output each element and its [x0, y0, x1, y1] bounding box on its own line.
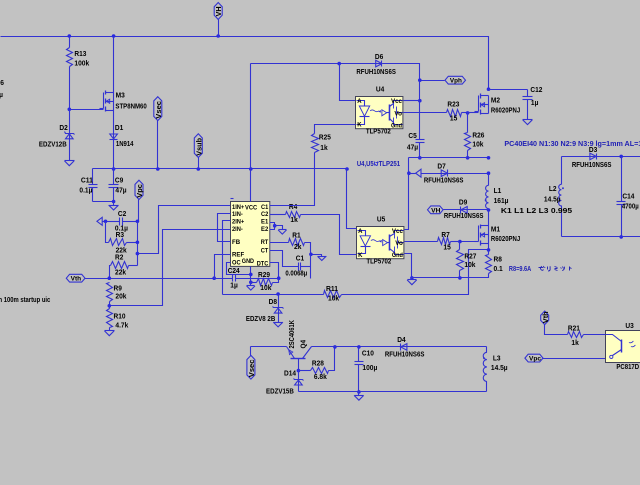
resistor R11 — [279, 250, 489, 303]
svg-text:E1: E1 — [261, 218, 269, 225]
port flag (C2 input) — [97, 217, 106, 225]
wire: U1 GND pin — [249, 267, 253, 285]
svg-text:RFUH10NS6S: RFUH10NS6S — [572, 160, 612, 169]
wire: R9/R10 tap to 2IN- — [108, 230, 231, 308]
svg-text:U4: U4 — [376, 85, 385, 94]
resistor R3 — [106, 222, 138, 255]
svg-text:M2: M2 — [491, 96, 500, 105]
svg-text:15: 15 — [443, 242, 450, 251]
svg-text:K: K — [357, 121, 361, 128]
wire: M1 source node — [487, 244, 491, 252]
diode D4 — [385, 335, 425, 358]
resistor R21 — [568, 324, 606, 347]
wire: current-sense run — [223, 292, 280, 296]
svg-text:C10: C10 — [362, 348, 374, 357]
svg-text:4700µ: 4700µ — [622, 201, 639, 210]
wire: E1/E2 tie — [270, 223, 283, 230]
diode D7 — [424, 161, 490, 184]
wire: 2IN+ to current-sense net — [223, 221, 231, 295]
wire: DTC leg — [270, 263, 279, 279]
svg-text:C24: C24 — [228, 266, 241, 275]
net flag Vpc (left) — [135, 180, 144, 221]
svg-text:RFUH10NS6S: RFUH10NS6S — [444, 211, 484, 220]
resistor R2 — [110, 253, 138, 279]
svg-text:R6020PNJ: R6020PNJ — [491, 234, 520, 243]
capacitor C5 — [407, 101, 425, 160]
svg-text:L2: L2 — [549, 184, 557, 193]
wire: Vph to U4 Vcc — [404, 81, 422, 103]
svg-text:D4: D4 — [397, 335, 406, 344]
svg-text:CT: CT — [261, 247, 269, 254]
node: M1 drain — [487, 208, 491, 212]
op-amp U4 (TLP5702 opto driver) — [356, 85, 403, 136]
svg-text:R25: R25 — [319, 132, 331, 141]
wire: Q4 collector run — [312, 345, 487, 349]
svg-text:Vpc: Vpc — [529, 356, 541, 363]
wire: U5 Vcc leg — [405, 158, 411, 230]
svg-text:D9: D9 — [459, 197, 467, 206]
svg-text:10k: 10k — [260, 283, 272, 292]
svg-text:D8: D8 — [269, 297, 277, 306]
svg-text:1IN+: 1IN+ — [232, 204, 244, 211]
wire: secondary return — [562, 236, 640, 238]
svg-text:1k: 1k — [290, 215, 298, 224]
text: comment R8 limit — [509, 266, 572, 273]
svg-text:0µ: 0µ — [0, 90, 3, 99]
svg-text:C1: C1 — [296, 253, 304, 262]
resistor R4 — [270, 202, 357, 254]
resistor R26 — [465, 113, 485, 160]
svg-text:EDZV15B: EDZV15B — [266, 386, 294, 395]
wire: Vth node — [85, 276, 217, 280]
net flag Vth (left) — [66, 274, 85, 282]
zener D8 — [246, 295, 284, 324]
svg-text:Vsec: Vsec — [154, 101, 163, 119]
ground (C12) — [523, 120, 533, 125]
svg-text:FB: FB — [232, 239, 240, 246]
capacitor C12 — [489, 85, 543, 120]
ground (E1/E2) — [278, 230, 286, 235]
ground (C10) — [354, 392, 364, 401]
text: transformer comment — [504, 141, 640, 148]
svg-text:10k: 10k — [472, 139, 484, 148]
text: coupling K1 — [501, 206, 572, 215]
svg-text:R23: R23 — [447, 100, 459, 109]
svg-text:D14: D14 — [284, 369, 297, 378]
svg-text:0.1µ: 0.1µ — [79, 185, 92, 194]
svg-text:2SC4061K: 2SC4061K — [287, 319, 296, 348]
zener D2 — [39, 110, 75, 161]
svg-text:VH: VH — [431, 207, 440, 214]
zener D14 — [266, 369, 304, 396]
svg-text:EDZV12B: EDZV12B — [39, 140, 67, 149]
wire: VCC-D6 top loop — [251, 62, 376, 66]
wire: RT/CT ground spur — [309, 253, 321, 257]
svg-text:K: K — [358, 252, 362, 259]
resistor R29 — [251, 270, 279, 292]
wire: bottom return — [299, 391, 487, 393]
svg-text:Q4: Q4 — [299, 340, 308, 349]
svg-text:R8: R8 — [494, 255, 502, 264]
svg-text:D3: D3 — [589, 145, 597, 154]
svg-text:R8=9.6A: R8=9.6A — [509, 266, 531, 273]
transistor M1 — [475, 211, 521, 246]
svg-text:K1 L1 L2 L3 0.995: K1 L1 L2 L3 0.995 — [501, 206, 572, 215]
resistor R1 — [270, 230, 311, 254]
svg-text:2k: 2k — [294, 242, 302, 251]
svg-text:Vsub: Vsub — [195, 137, 204, 155]
svg-text:A: A — [358, 228, 362, 235]
svg-text:Vcc: Vcc — [391, 98, 402, 105]
capacitor C2 — [104, 209, 140, 232]
net flag Vsec (upper) — [154, 97, 163, 169]
svg-text:161µ: 161µ — [494, 196, 509, 205]
svg-text:Vcc: Vcc — [392, 228, 403, 235]
inductor L1 — [485, 174, 509, 211]
svg-text:RFUH10NS6S: RFUH10NS6S — [385, 349, 425, 358]
svg-text:D2: D2 — [59, 123, 67, 132]
capacitor C24 — [215, 266, 281, 289]
svg-text:0.0068µ: 0.0068µ — [285, 268, 307, 277]
ground (U1 GND) — [247, 283, 256, 291]
svg-text:U3: U3 — [625, 321, 633, 330]
svg-text:R1: R1 — [292, 230, 300, 239]
svg-text:A: A — [357, 98, 361, 105]
transistor M3 — [100, 37, 147, 112]
text: off-canvas C16 fragment — [0, 78, 4, 99]
wire: U5 A leg — [347, 169, 357, 229]
svg-text:R7: R7 — [441, 230, 449, 239]
svg-text:R13: R13 — [74, 49, 86, 58]
svg-text:Vpc: Vpc — [135, 184, 144, 198]
svg-text:1N914: 1N914 — [116, 139, 134, 148]
svg-text:L3: L3 — [493, 353, 501, 362]
wire: REF leg — [215, 255, 231, 279]
svg-text:R21: R21 — [568, 324, 580, 333]
wire: U4 A leg — [340, 64, 356, 101]
capacitor C14 — [617, 157, 639, 239]
svg-text:C2: C2 — [261, 211, 269, 218]
resistor R23 — [404, 100, 470, 123]
svg-text:R10: R10 — [114, 311, 126, 320]
ground (C9/C11) — [109, 202, 119, 211]
svg-text:14.5µ: 14.5µ — [491, 363, 508, 372]
op-amp U3 (PC817 opto) — [606, 321, 640, 371]
wire: M3 gate node — [68, 108, 104, 112]
svg-text:STP8NM60: STP8NM60 — [115, 102, 146, 111]
resistor R10 — [107, 306, 130, 331]
wire: switch node row — [409, 156, 491, 160]
wire: OC to GND — [227, 263, 251, 275]
svg-text:Vo: Vo — [394, 110, 402, 117]
svg-text:R4: R4 — [289, 202, 298, 211]
diode D6 — [356, 52, 419, 81]
svg-text:E2: E2 — [261, 226, 269, 233]
text: .tran directive fragment — [0, 295, 50, 304]
svg-text:EDZV8 2B: EDZV8 2B — [246, 314, 276, 323]
svg-text:R29: R29 — [258, 270, 270, 279]
ground (U5 Gnd) — [407, 278, 417, 285]
svg-text:C11: C11 — [81, 176, 93, 185]
svg-text:Vph: Vph — [450, 78, 462, 85]
svg-text:Vo: Vo — [395, 240, 403, 247]
svg-text:C12: C12 — [530, 85, 542, 94]
svg-text:20k: 20k — [115, 292, 127, 301]
svg-text:4.7k: 4.7k — [115, 320, 129, 329]
svg-text:16: 16 — [0, 78, 4, 87]
ground (D8) — [273, 322, 283, 327]
svg-text:Vth: Vth — [71, 276, 82, 283]
svg-text:C14: C14 — [622, 192, 635, 201]
svg-text:PC817D: PC817D — [616, 362, 639, 371]
svg-text:14.5µ: 14.5µ — [544, 194, 561, 203]
svg-text:TLP5702: TLP5702 — [366, 257, 391, 266]
resistor R7 — [405, 230, 460, 251]
svg-text:2IN-: 2IN- — [232, 226, 243, 233]
wire: Vsec/Vsub supply rail — [93, 167, 349, 171]
svg-text:n 100m startup uic: n 100m startup uic — [0, 295, 50, 304]
svg-text:M1: M1 — [491, 225, 500, 234]
resistor R28 — [299, 345, 337, 381]
ground (D2) — [65, 161, 75, 166]
inductor L2 — [544, 157, 564, 237]
svg-text:C1: C1 — [261, 204, 269, 211]
wire: C9/C11 ground node — [93, 200, 116, 204]
svg-text:U4,U5: U4,U5 — [357, 159, 374, 168]
resistor R13 — [67, 37, 90, 110]
svg-text:RT: RT — [261, 239, 269, 246]
svg-text:VCC: VCC — [245, 205, 257, 212]
svg-text:0.1: 0.1 — [494, 264, 503, 273]
op-amp U5 (TLP5702 opto driver) — [357, 215, 404, 266]
wire: node B vertical — [136, 222, 140, 266]
svg-text:100µ: 100µ — [362, 363, 377, 372]
op-amp U1 (TL494 PWM controller) — [231, 199, 270, 268]
svg-text:R28: R28 — [312, 359, 324, 368]
svg-text:C2: C2 — [118, 209, 126, 218]
net flag VH (top) — [214, 3, 223, 37]
svg-text:RFUH10NS6S: RFUH10NS6S — [356, 67, 396, 76]
net flag Vph — [418, 76, 466, 84]
net flag Vsub — [194, 134, 203, 169]
capacitor C11 — [79, 169, 97, 202]
svg-text:U5: U5 — [377, 215, 385, 224]
wire: Vsec to Q4 emitter — [251, 346, 287, 348]
svg-text:C9: C9 — [115, 176, 123, 185]
capacitor C1 — [270, 251, 311, 279]
svg-text:10k: 10k — [328, 294, 340, 303]
capacitor C10 — [355, 347, 378, 394]
svg-text:D1: D1 — [115, 123, 123, 132]
svg-text:Vsec: Vsec — [247, 360, 256, 378]
svg-text:R2: R2 — [115, 253, 123, 262]
svg-text:GND: GND — [242, 258, 254, 265]
wire: node B to 1IN+ — [138, 206, 231, 254]
inductor L3 — [483, 347, 507, 392]
wire: VCC leg — [250, 64, 252, 202]
wire: U5 Gnd leg — [405, 254, 460, 280]
svg-text:RFUH10NS6S: RFUH10NS6S — [424, 176, 464, 185]
wire: top VH rail — [1, 34, 489, 89]
text: comment U4 U5 — [357, 159, 400, 168]
diode D3 — [562, 145, 640, 169]
svg-text:15: 15 — [450, 114, 457, 123]
svg-text:Gnd: Gnd — [391, 122, 402, 129]
ground (R10) — [105, 331, 115, 336]
port flag (D7) — [409, 169, 442, 177]
svg-text:1k: 1k — [571, 338, 579, 347]
svg-text:2IN+: 2IN+ — [232, 218, 244, 225]
wire: M1 gate — [458, 240, 478, 244]
svg-text:L1: L1 — [494, 186, 502, 195]
svg-text:47µ: 47µ — [115, 185, 126, 194]
svg-text:R6020PNJ: R6020PNJ — [491, 106, 520, 115]
diode D9 — [444, 197, 489, 220]
svg-text:Vth: Vth — [541, 311, 550, 323]
svg-text:D6: D6 — [375, 52, 383, 61]
svg-text:R26: R26 — [472, 131, 484, 140]
svg-text:22k: 22k — [115, 268, 127, 277]
svg-text:R3: R3 — [116, 230, 124, 239]
net flag Vth (right) — [541, 311, 568, 335]
svg-text:Gnd: Gnd — [392, 252, 403, 259]
resistor R27 — [457, 242, 477, 280]
net flag Vsec (lower) — [247, 347, 256, 380]
svg-text:TLP5702: TLP5702 — [366, 127, 391, 136]
transistor M2 — [475, 87, 521, 114]
svg-text:1µ: 1µ — [230, 280, 238, 289]
svg-text:6.8k: 6.8k — [314, 372, 328, 381]
svg-text:47µ: 47µ — [407, 143, 418, 152]
svg-text:R27: R27 — [464, 252, 476, 261]
svg-text:PC40EI40 N1:30 N2:9 N3:9 lg=1m: PC40EI40 N1:30 N2:9 N3:9 lg=1mm AL=179*1… — [504, 141, 640, 148]
svg-text:1µ: 1µ — [531, 98, 539, 107]
net flag Vpc (right) — [525, 354, 606, 363]
svg-text:TLP251: TLP251 — [379, 159, 401, 168]
svg-text:1IN-: 1IN- — [232, 211, 243, 218]
wire: 1IN- to FB — [218, 214, 231, 242]
svg-text:10k: 10k — [464, 260, 476, 269]
svg-text:VH: VH — [214, 6, 223, 16]
resistor R9 — [107, 283, 128, 306]
svg-text:M3: M3 — [116, 90, 125, 99]
svg-text:D7: D7 — [437, 161, 445, 170]
diode D1 — [110, 111, 135, 169]
ground (RT/CT) — [318, 256, 327, 260]
svg-text:100k: 100k — [74, 58, 90, 67]
capacitor C9 — [109, 169, 127, 202]
resistor R25 — [270, 125, 356, 206]
net flag VH (D9) — [428, 206, 444, 215]
svg-text:R11: R11 — [326, 284, 338, 293]
svg-text:C5: C5 — [408, 131, 416, 140]
transistor Q4 — [287, 319, 312, 372]
svg-text:DTC: DTC — [257, 261, 269, 268]
svg-text:1k: 1k — [320, 143, 328, 152]
resistor R8 — [460, 250, 503, 278]
wire: M2 gate — [468, 112, 479, 114]
